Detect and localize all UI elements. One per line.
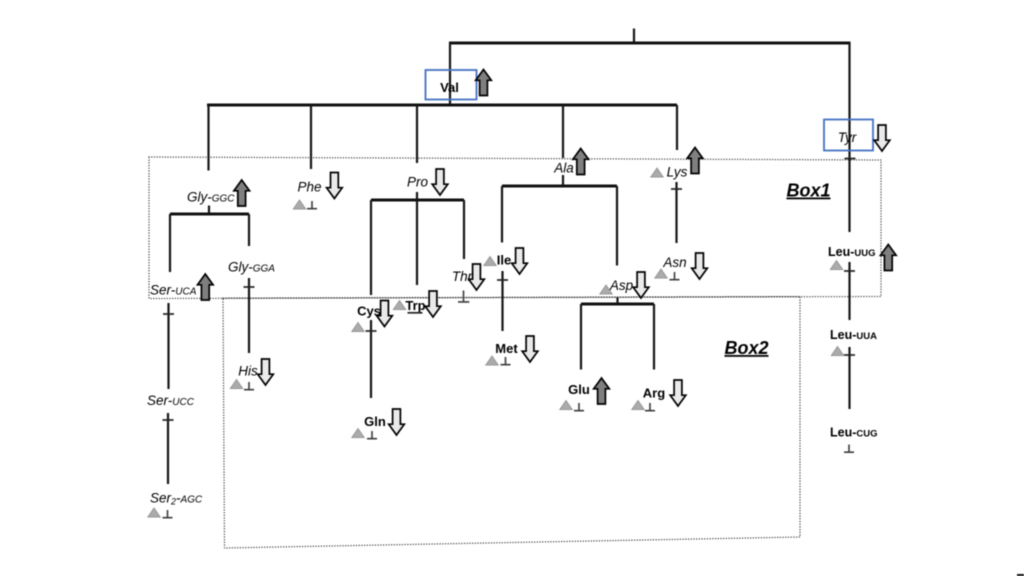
tick on Leu segment 1: [844, 270, 855, 272]
wire Gly-GGA lineage segment: [248, 278, 250, 353]
tack terminal Leu-CUG: [844, 445, 854, 453]
svg-text:His: His: [238, 364, 258, 379]
tack Glu: [574, 403, 584, 411]
triangle Glu: [560, 400, 573, 409]
tick on Ile segment: [497, 279, 508, 281]
wire Pro center line: [416, 192, 418, 285]
tick on Ser segment 1: [163, 313, 174, 315]
triangle Trp: [393, 300, 406, 309]
down-arrow His: [258, 359, 274, 385]
svg-text:Pro: Pro: [407, 175, 429, 190]
svg-text:Glu: Glu: [568, 382, 590, 397]
svg-text:Leu-UUA: Leu-UUA: [830, 328, 877, 342]
wire Leu lineage segment 2: [848, 347, 850, 409]
triangle Ser2-AGC: [148, 508, 161, 517]
triangle Ile: [484, 256, 497, 265]
up-arrow Lys: [687, 148, 703, 174]
box Val: [426, 70, 477, 100]
up-arrow Ser-UCA: [198, 274, 214, 300]
wire Ser lineage segment 2: [167, 413, 169, 484]
wire Gly bracket: [170, 213, 249, 216]
svg-text:Met: Met: [495, 341, 518, 356]
triangle Asp: [600, 285, 613, 294]
wire level2 horizontal: [207, 104, 677, 107]
wire Ile leg: [501, 186, 503, 243]
wire Lys drop: [676, 105, 678, 150]
tack Ser2-AGC: [163, 510, 173, 518]
triangle Met: [486, 356, 499, 365]
down-arrow Met: [522, 336, 538, 362]
wire Asp leg: [616, 186, 618, 266]
triangle Asn: [655, 269, 668, 278]
triangle Leu-UUA: [831, 346, 844, 355]
wire Val drop: [449, 43, 451, 105]
down-arrow Phe: [327, 173, 343, 199]
up-arrow Gly-GGC: [234, 180, 250, 206]
triangle Cys: [352, 322, 365, 331]
up-arrow Val: [476, 70, 492, 96]
svg-text:Ser2-AGC: Ser2-AGC: [150, 491, 203, 507]
svg-text:Ala: Ala: [553, 161, 574, 176]
svg-text:Leu-UUG: Leu-UUG: [828, 245, 876, 259]
down-arrow Cys: [377, 301, 393, 327]
up-arrow Glu: [594, 378, 610, 404]
svg-text:Gly-GGA: Gly-GGA: [228, 260, 275, 275]
wire Gly-GGA leg: [248, 214, 250, 246]
svg-text:Box1: Box1: [786, 181, 830, 201]
svg-text:Ile: Ile: [497, 253, 511, 268]
tack Asn: [670, 272, 680, 280]
tick on Gly-GGA segment: [244, 286, 255, 288]
triangle His: [230, 379, 243, 388]
wire Ser lineage segment 1: [167, 303, 169, 389]
wire Thr leg: [463, 200, 465, 259]
svg-text:Val: Val: [440, 80, 459, 95]
svg-text:Gly-GGC: Gly-GGC: [187, 190, 235, 205]
svg-text:Trp: Trp: [405, 298, 425, 313]
svg-text:Arg: Arg: [643, 386, 665, 401]
tick on Lys segment: [671, 188, 682, 190]
box Tyr: [824, 120, 873, 151]
wire Asp tick to bracket: [616, 298, 618, 305]
tack His: [244, 382, 254, 390]
triangle Lys: [651, 168, 664, 177]
wire Phe drop: [310, 105, 312, 169]
tick on Tyr line at Box1 edge: [845, 158, 856, 160]
up-arrow Leu-UUG: [881, 245, 897, 271]
wire Glu leg: [580, 304, 582, 370]
tick on Leu segment 2: [844, 354, 855, 356]
Box2 dotted border: [223, 297, 800, 548]
wire Gly tick to bracket: [208, 206, 210, 215]
tick on Cys segment: [366, 330, 377, 332]
wire top horizontal: [449, 42, 851, 45]
corner mark bottom right: [1017, 574, 1024, 576]
svg-text:Ser-UCC: Ser-UCC: [147, 393, 195, 408]
svg-text:Asn: Asn: [662, 255, 686, 270]
wire Tyr drop: [848, 43, 850, 232]
Box1 dotted border: [149, 157, 881, 299]
wire root stub: [633, 29, 635, 44]
down-arrow Asn: [692, 253, 708, 279]
wire Ile lineage segment: [501, 271, 503, 331]
triangle Leu-UUG: [830, 260, 843, 269]
triangle Phe: [293, 200, 306, 209]
up-arrow Ala: [573, 149, 589, 175]
wire Cys lineage segment: [370, 320, 372, 398]
tack Gln: [367, 431, 377, 439]
down-arrow Tyr: [874, 125, 890, 151]
down-arrow Arg: [670, 380, 686, 406]
down-arrow Ile: [512, 248, 528, 274]
wire Gly drop: [207, 105, 209, 171]
down-arrow Pro: [432, 169, 448, 195]
wire Cys leg: [370, 200, 372, 295]
svg-text:Box2: Box2: [724, 338, 768, 358]
tack terminal Thr: [458, 291, 469, 302]
wire Asp bracket: [581, 303, 654, 306]
wire Lys lineage segment: [675, 182, 677, 243]
down-arrow Trp: [425, 291, 441, 317]
triangle Gln: [352, 428, 365, 437]
wire Ser-UCA leg: [169, 214, 171, 272]
wire Leu lineage segment 1: [848, 262, 850, 320]
triangle Arg: [632, 400, 645, 409]
down-arrow Thr: [469, 264, 485, 290]
svg-text:Leu-CUG: Leu-CUG: [830, 426, 878, 440]
svg-text:Lys: Lys: [667, 165, 688, 180]
tack Phe: [307, 201, 317, 209]
wire Ala drop: [562, 105, 564, 158]
wire Ala tick to bracket: [562, 175, 564, 186]
svg-text:Gln: Gln: [364, 414, 386, 429]
tack Met: [501, 357, 511, 365]
wire Arg leg: [653, 304, 655, 370]
tack Arg: [645, 403, 655, 411]
svg-text:Phe: Phe: [297, 180, 321, 195]
wire Pro drop: [416, 105, 418, 163]
down-arrow Asp: [633, 272, 649, 298]
down-arrow Gln: [389, 409, 405, 435]
svg-text:Tyr: Tyr: [838, 130, 857, 145]
svg-text:Ser-UCA: Ser-UCA: [150, 283, 197, 298]
svg-text:Asp: Asp: [609, 278, 634, 293]
wire Ala bracket: [502, 185, 617, 188]
tick on Ser segment 2: [163, 419, 174, 421]
underline Trp: [408, 312, 423, 314]
wire Pro bracket: [371, 199, 464, 202]
